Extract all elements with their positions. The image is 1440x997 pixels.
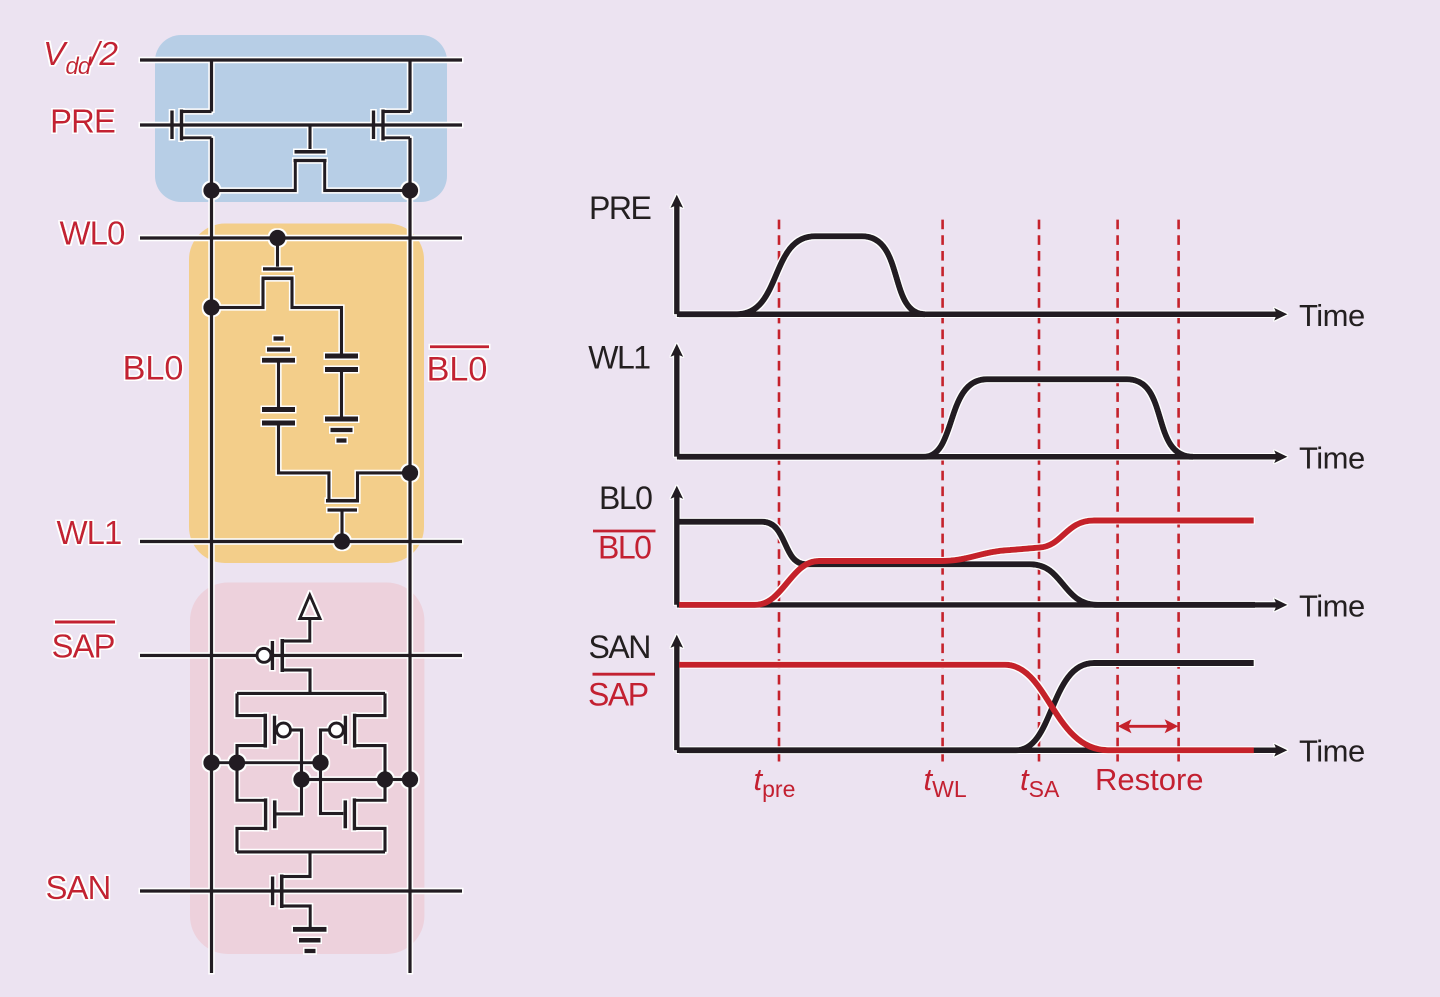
- plot WL1 curve: [679, 379, 1193, 457]
- net WL1 wire: [140, 540, 462, 543]
- gate bubble latch PMOS left: [277, 723, 291, 737]
- access transistor M5 (WL1 cell): [326, 473, 410, 542]
- supply arrow (SAP pull-up): [300, 595, 320, 619]
- junction node latch right gate: [312, 755, 328, 771]
- junction node BL0/cell0: [203, 299, 219, 315]
- svg-text:BL0: BL0: [123, 350, 184, 388]
- plot SAP-bar red curve: [679, 665, 1254, 750]
- junction node latch left column: [229, 755, 245, 771]
- storage capacitor cell1: [262, 410, 329, 501]
- svg-text:SAP: SAP: [588, 677, 648, 713]
- svg-text:WL1: WL1: [588, 340, 650, 376]
- restore interval double arrow: [1124, 725, 1172, 728]
- svg-text:WL1: WL1: [57, 514, 122, 551]
- plot BL0 black curve: [679, 522, 1255, 605]
- gate bubble SAP: [257, 648, 271, 662]
- cross-couple wire lower (to BL0-bar): [302, 778, 411, 781]
- svg-text:PRE: PRE: [50, 103, 115, 140]
- svg-text:BL0: BL0: [598, 530, 651, 566]
- latch PMOS left: [237, 693, 302, 814]
- transistor SAN NMOS: [273, 852, 311, 928]
- junction node latch right column: [377, 771, 393, 787]
- svg-text:Time: Time: [1299, 734, 1365, 769]
- net SAN wire: [140, 889, 462, 892]
- net PRE wire: [140, 123, 462, 126]
- svg-text:WL0: WL0: [60, 215, 126, 252]
- plot WL1 axes: [677, 354, 1277, 457]
- transistor SAP PMOS: [272, 619, 310, 694]
- equalize transistor M3: [212, 125, 411, 191]
- junction node latch left gate: [293, 771, 309, 787]
- cross-couple wire upper (to BL0): [212, 761, 321, 764]
- junction node BL0-bar/latch: [402, 771, 418, 787]
- ground symbol cell0: [325, 419, 358, 441]
- gate bubble latch PMOS right: [329, 723, 343, 737]
- time marker dashed lines: [779, 220, 1179, 762]
- storage capacitor cell0: [325, 356, 358, 419]
- cell-plate symbol cell1 (inverted ground): [262, 339, 295, 410]
- svg-text:SAN: SAN: [589, 629, 650, 665]
- junction node BL0-bar/precharge: [402, 182, 418, 198]
- plot BL0 axes: [677, 496, 1277, 605]
- svg-text:Time: Time: [1299, 589, 1365, 624]
- cell region highlight: [189, 224, 424, 564]
- junction node WL0 gate: [269, 230, 285, 246]
- access transistor M4 (WL0 cell): [212, 238, 342, 356]
- latch top rail wire: [237, 692, 385, 695]
- svg-text:Restore: Restore: [1095, 762, 1204, 797]
- junction node BL0-bar/cell1: [402, 465, 418, 481]
- latch NMOS right: [345, 780, 385, 852]
- junction node BL0/latch: [203, 755, 219, 771]
- latch NMOS left: [237, 763, 275, 852]
- svg-text:PRE: PRE: [589, 190, 650, 226]
- svg-text:Time: Time: [1299, 441, 1365, 476]
- ground symbol SAN: [293, 929, 327, 951]
- plot BL0-bar red curve: [679, 521, 1254, 605]
- plot SAN axes: [677, 645, 1277, 750]
- bitline BL0-bar wire: [408, 60, 411, 973]
- net Vdd/2 wire: [140, 58, 462, 61]
- junction node BL0/precharge: [203, 182, 219, 198]
- svg-text:SAP: SAP: [52, 628, 115, 665]
- precharge transistor M2 right: [374, 110, 411, 141]
- svg-text:Time: Time: [1299, 298, 1365, 333]
- junction node WL1 gate: [334, 533, 350, 549]
- plot SAN black curve: [679, 663, 1254, 750]
- svg-text:SAN: SAN: [46, 869, 111, 906]
- latch PMOS right: [321, 693, 386, 813]
- net SAP wire: [140, 654, 462, 657]
- plot PRE curve: [679, 236, 925, 314]
- net WL0 wire: [140, 236, 462, 239]
- sense-amp region highlight: [190, 583, 424, 955]
- precharge transistor M1 left: [172, 110, 212, 141]
- latch bottom rail wire: [237, 850, 385, 853]
- plot PRE axes: [677, 205, 1277, 314]
- precharge region highlight: [155, 35, 447, 202]
- bitline BL0 wire: [210, 60, 213, 973]
- svg-text:BL0: BL0: [427, 351, 488, 389]
- svg-text:BL0: BL0: [599, 480, 652, 516]
